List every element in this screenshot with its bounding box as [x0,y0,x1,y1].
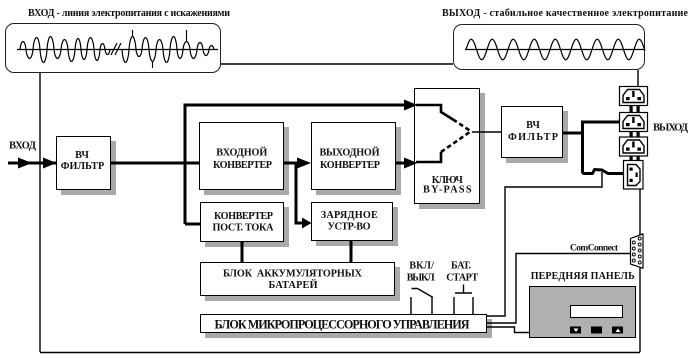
svg-text:БЛОК МИКРОПРОЦЕССОРНОГО УПРАВЛ: БЛОК МИКРОПРОЦЕССОРНОГО УПРАВЛЕНИЯ [215,318,470,332]
svg-text:ВХОД: ВХОД [9,141,37,152]
svg-text:ВЫХОДНОЙ: ВЫХОДНОЙ [320,147,380,159]
svg-text:КОНВЕРТЕР: КОНВЕРТЕР [213,160,272,171]
svg-text:BY-PASS: BY-PASS [423,185,472,196]
svg-text:КОНВЕРТЕР: КОНВЕРТЕР [214,211,273,222]
svg-text:БАТ.: БАТ. [451,261,472,272]
svg-text:ВХОД - линия электропитания с: ВХОД - линия электропитания с искажениям… [28,8,230,19]
svg-text:ПОСТ. ТОКА: ПОСТ. ТОКА [213,223,275,234]
svg-text:ПЕРЕДНЯЯ ПАНЕЛЬ: ПЕРЕДНЯЯ ПАНЕЛЬ [531,271,635,282]
svg-text:ComConnect: ComConnect [570,244,619,254]
svg-text:СТАРТ: СТАРТ [446,272,478,283]
svg-text:КОНВЕРТЕР: КОНВЕРТЕР [320,160,380,171]
svg-text:БАТАРЕЙ: БАТАРЕЙ [269,279,318,291]
svg-text:ВХОДНОЙ: ВХОДНОЙ [216,146,267,158]
svg-text:ФИЛЬТР: ФИЛЬТР [508,132,558,143]
svg-text:ВКЛ/: ВКЛ/ [409,261,434,272]
svg-text:ВЫКЛ: ВЫКЛ [407,272,436,283]
svg-text:ЗАРЯДНОЕ: ЗАРЯДНОЕ [321,210,378,221]
svg-text:ВЫХОД - стабильное качественно: ВЫХОД - стабильное качественное электроп… [442,8,689,19]
svg-text:ФИЛЬТР: ФИЛЬТР [61,161,105,172]
svg-text:ВЧ: ВЧ [75,150,89,161]
svg-text:БЛОК АККУМУЛЯТОРНЫХ: БЛОК АККУМУЛЯТОРНЫХ [223,269,363,280]
svg-text:ВЫХОД: ВЫХОД [653,123,689,134]
svg-text:УСТР-ВО: УСТР-ВО [328,222,371,233]
svg-text:ВЧ: ВЧ [526,120,540,131]
